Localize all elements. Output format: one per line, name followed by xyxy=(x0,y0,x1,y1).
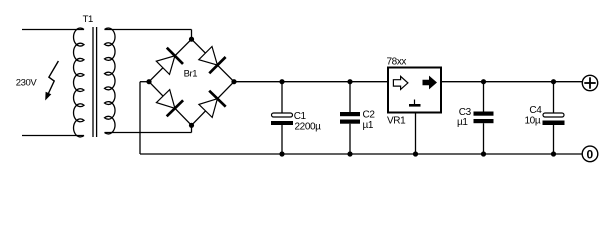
svg-text:µ1: µ1 xyxy=(457,117,468,128)
wire bottom rail xyxy=(140,153,583,155)
transformer core line right xyxy=(96,27,98,137)
node C4 top xyxy=(551,79,556,84)
mains arrow xyxy=(45,61,58,101)
VR1 body box xyxy=(388,68,441,113)
wire C3 top lead xyxy=(483,82,485,112)
svg-text:10µ: 10µ xyxy=(525,116,541,127)
node C4 bottom xyxy=(551,151,556,156)
node bridge bottom xyxy=(189,123,194,128)
wire top rail right of regulator xyxy=(441,81,583,83)
svg-text:C1: C1 xyxy=(294,111,307,122)
wire primary bottom xyxy=(22,135,84,137)
transformer T1 secondary winding xyxy=(105,28,116,134)
ground mark inside box xyxy=(414,100,416,105)
C2 bottom plate xyxy=(340,120,360,124)
terminal zero xyxy=(582,146,598,162)
bridge edge bottom-left xyxy=(149,82,192,126)
transformer core line left xyxy=(92,27,94,137)
bridge rectifier Br1 xyxy=(146,37,236,128)
C4 negative plate xyxy=(543,121,565,126)
diode D bottom-left xyxy=(156,90,183,117)
wire C4 bottom lead xyxy=(553,125,555,155)
svg-text:0: 0 xyxy=(587,147,594,161)
C1 negative plate xyxy=(271,121,293,125)
node VR1 pin bottom xyxy=(413,151,418,156)
C4 positive plate xyxy=(543,113,564,117)
wire C1 bottom lead xyxy=(281,125,283,154)
wire secondary top xyxy=(105,29,192,31)
bridge edge top-left xyxy=(149,39,192,81)
svg-text:C4: C4 xyxy=(529,105,542,116)
node C1 top xyxy=(279,79,284,84)
wire C2 bottom lead xyxy=(349,124,351,154)
svg-text:78xx: 78xx xyxy=(387,56,407,67)
wire left drop to bottom rail xyxy=(139,82,141,154)
wire C1 top lead xyxy=(281,82,283,113)
capacitor C4 xyxy=(525,79,565,156)
node bridge right xyxy=(231,79,236,84)
node bridge top xyxy=(189,37,194,42)
node C3 bottom xyxy=(481,151,486,156)
svg-text:2200µ: 2200µ xyxy=(295,122,322,133)
node C2 bottom xyxy=(347,151,352,156)
C1 positive plate xyxy=(272,113,293,117)
wire C4 top lead xyxy=(553,82,555,113)
wire secondary bottom xyxy=(105,132,192,134)
bridge edge top-right xyxy=(192,39,235,81)
diode D bottom-right xyxy=(199,91,226,118)
node C1 bottom xyxy=(279,151,284,156)
terminal plus xyxy=(582,75,597,90)
wire bridge bottom stub xyxy=(191,125,193,132)
svg-text:VR1: VR1 xyxy=(387,116,406,127)
svg-text:Br1: Br1 xyxy=(184,68,198,79)
transformer T1 primary winding xyxy=(74,28,84,137)
wire C3 bottom lead xyxy=(483,123,485,154)
open arrow xyxy=(393,76,408,89)
C2 top plate xyxy=(340,112,360,116)
svg-text:µ1: µ1 xyxy=(363,120,374,131)
wire VR1 bottom pin xyxy=(415,114,417,155)
svg-text:C2: C2 xyxy=(363,110,376,121)
wire bridge top stub xyxy=(191,30,193,40)
capacitor C3 xyxy=(457,79,494,156)
diode D top-left xyxy=(156,48,183,75)
capacitor C2 xyxy=(340,79,375,156)
regulator VR1 xyxy=(387,56,442,156)
svg-text:T1: T1 xyxy=(83,14,93,25)
capacitor C1 xyxy=(271,79,321,156)
node C2 top xyxy=(347,79,352,84)
C3 top plate xyxy=(474,112,494,116)
wire primary top xyxy=(22,29,84,31)
solid arrow xyxy=(423,76,438,90)
bridge edge bottom-right xyxy=(192,82,235,126)
wire top rail left of regulator xyxy=(234,81,388,83)
wire C2 top lead xyxy=(349,82,351,112)
node C3 top xyxy=(481,79,486,84)
svg-text:230V: 230V xyxy=(16,77,38,88)
diode D top-right xyxy=(199,47,226,74)
node bridge left xyxy=(146,79,151,84)
C3 bottom plate xyxy=(474,119,494,123)
wire bridge left stub xyxy=(140,81,149,83)
